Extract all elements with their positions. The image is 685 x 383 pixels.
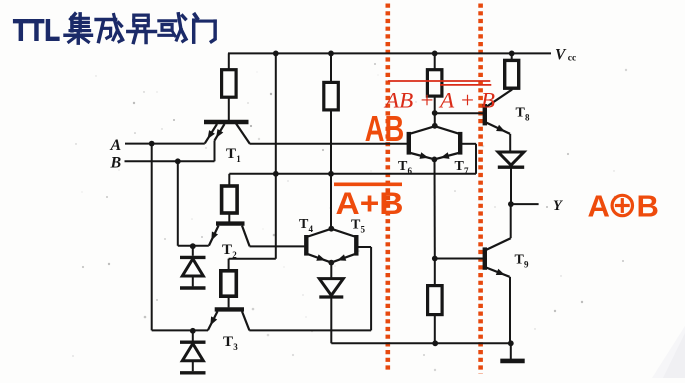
wire rail to R3 <box>434 53 436 69</box>
transistor T1 emitter 2 <box>215 124 225 141</box>
wire T7 base to long wire <box>462 143 476 145</box>
orange overline A+B <box>334 183 402 187</box>
resistor R1 <box>222 70 237 98</box>
svg-text:A: A <box>110 137 122 154</box>
wire Y node down to T9 collector <box>510 204 512 238</box>
node bottom rail ground junction <box>508 340 514 346</box>
wire input B <box>125 160 215 162</box>
node T9 base junction <box>432 256 438 262</box>
transistor T4 collector <box>308 229 330 236</box>
red formula overline short <box>440 84 491 86</box>
wire T3 collector to T5 base <box>249 329 371 331</box>
svg-text:1: 1 <box>236 154 241 164</box>
transistor T5 base bar <box>354 235 358 256</box>
orange dotted guide line left <box>385 4 390 373</box>
title glyph 或 <box>159 14 186 41</box>
svg-text:T: T <box>455 159 465 174</box>
wire to output Y <box>511 203 539 205</box>
diode D3 <box>330 263 332 279</box>
svg-text:Y: Y <box>553 198 563 214</box>
transistor T4 base bar <box>304 235 308 256</box>
wire R-T3 to T3 base <box>228 296 230 307</box>
svg-text:T: T <box>299 217 309 232</box>
svg-text:T: T <box>222 242 232 258</box>
svg-text:V: V <box>555 47 567 64</box>
svg-text:T: T <box>515 253 525 268</box>
transistor T1 base bar <box>204 120 249 124</box>
scan speckle background <box>72 63 627 371</box>
resistor R4 <box>505 60 519 88</box>
svg-text:A+B: A+B <box>336 185 404 221</box>
svg-text:T: T <box>226 146 236 162</box>
svg-text:4: 4 <box>309 224 314 234</box>
transistor T8 collector <box>486 90 511 107</box>
wire T2 collector to T4 base <box>250 245 305 247</box>
transistor T2 emitter <box>209 226 219 246</box>
transistor T1 collector <box>236 124 250 144</box>
transistor T7 base bar <box>458 132 462 155</box>
svg-text:B: B <box>110 155 122 172</box>
resistor R5 <box>428 286 443 315</box>
transistor T9 collector <box>486 238 510 250</box>
diode D1 <box>192 246 194 256</box>
transistor T3 collector <box>242 311 249 330</box>
node junction at x331 <box>328 171 334 177</box>
transistor T2 collector <box>242 226 250 247</box>
title glyph 异 <box>128 15 156 42</box>
resistor R2 <box>324 82 339 110</box>
svg-text:T: T <box>223 334 233 350</box>
title glyph 门 <box>194 14 215 42</box>
wire T2 base resistor node horizontal <box>229 173 476 175</box>
svg-text:AB: AB <box>365 108 405 149</box>
svg-text:cc: cc <box>568 54 576 64</box>
node T6-T7 emitters junction <box>432 157 438 163</box>
transistor T2 base bar <box>216 221 245 225</box>
node rail junction x331 <box>328 51 334 57</box>
svg-text:T: T <box>516 106 526 121</box>
transistor T4 emitter <box>308 254 329 262</box>
svg-text:6: 6 <box>408 166 413 176</box>
transistor T7 emitter <box>437 153 459 159</box>
svg-text:A: A <box>588 189 610 224</box>
transistor T1 emitter 1 <box>205 124 217 143</box>
wire R2 down to T4-T5 node <box>330 110 332 229</box>
resistor R-T3 above T3 base <box>221 271 237 296</box>
transistor T3 emitter <box>208 311 218 330</box>
node D2 junction <box>190 328 196 334</box>
wire node to T6-T7 collectors <box>434 113 436 126</box>
svg-text:9: 9 <box>524 260 529 270</box>
transistor T5 emitter <box>333 254 354 262</box>
transistor T9 emitter <box>486 268 509 277</box>
diode D2 <box>192 330 194 340</box>
wire to T8 base <box>435 112 484 114</box>
node T6-T7 collectors junction <box>432 123 438 129</box>
svg-text:3: 3 <box>233 342 238 352</box>
resistor R-T2 above T2 base <box>222 186 238 213</box>
wire B branch down <box>177 161 179 246</box>
wire R3 down to T8-base node <box>434 96 436 113</box>
node D1 junction <box>190 243 196 249</box>
title glyph 集 <box>65 14 91 43</box>
transistor T8 base bar <box>483 104 487 125</box>
transistor T8 emitter <box>486 123 510 134</box>
node junction at x276 <box>273 171 279 177</box>
svg-text:8: 8 <box>525 113 530 123</box>
wire T1 collector to T6 base <box>250 143 408 145</box>
wire rail to R4 <box>511 53 513 60</box>
transistor T6 collector <box>411 127 434 134</box>
node T8 base wire junction <box>432 110 438 116</box>
transistor T6 emitter <box>411 153 433 159</box>
node T4-T5 emitters junction <box>328 260 334 266</box>
wire T6-T7 emitters down to T9 base <box>434 159 436 258</box>
transistor T3 base bar <box>215 307 244 311</box>
node T4-T5 collectors junction <box>328 226 334 232</box>
resistor R5 lead top <box>434 259 436 286</box>
node B junction <box>175 158 181 164</box>
node output Y junction <box>508 201 514 207</box>
resistor R3 <box>427 70 442 96</box>
node A junction <box>149 141 155 147</box>
Vcc power rail wire <box>228 52 551 54</box>
wire A branch down-left <box>151 144 153 331</box>
wire R4 lead <box>511 88 513 90</box>
wire rail to R2 <box>330 53 332 82</box>
svg-text:B: B <box>637 189 659 224</box>
wire T3 base branch horizontal <box>229 258 276 260</box>
wire rail to R1 <box>228 53 230 69</box>
orange dotted guide line right <box>478 4 483 374</box>
wire bottom rail <box>331 342 511 344</box>
transistor T7 collector <box>436 127 458 134</box>
node rail junction R4 <box>509 51 515 57</box>
transistor T9 base bar <box>483 247 487 269</box>
wire R-T2 to T2 base <box>228 213 230 222</box>
wire input A <box>125 143 205 145</box>
node bottom rail R5 junction <box>432 340 438 346</box>
diode D4 <box>498 152 524 165</box>
resistor R5 lead bottom <box>434 315 436 344</box>
red formula overline long <box>388 80 490 82</box>
node rail junction R3 <box>432 51 438 57</box>
wire long node to R-T2 <box>228 174 230 186</box>
transistor T5 collector <box>333 229 355 236</box>
svg-text:TTL: TTL <box>13 12 60 47</box>
title glyph 成 <box>96 14 122 41</box>
page curl shadow bottom-right <box>652 326 685 378</box>
ground <box>510 343 512 359</box>
svg-text:T: T <box>398 159 408 174</box>
wire T9 base <box>435 258 483 260</box>
svg-text:7: 7 <box>464 166 469 176</box>
wire vertical x276 rail to T3 base branch <box>275 53 277 258</box>
wire down to R-T3 <box>228 259 230 271</box>
node rail junction x276 <box>273 51 279 57</box>
svg-text:5: 5 <box>361 225 366 235</box>
wire R1 to T1 base <box>228 97 230 120</box>
transistor T6 base bar <box>407 132 411 155</box>
